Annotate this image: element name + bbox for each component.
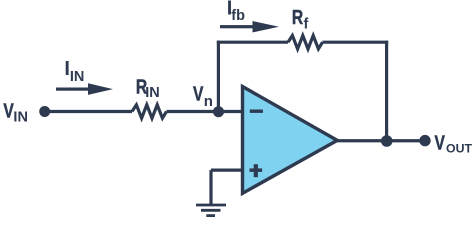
svg-text:IN: IN <box>13 109 28 125</box>
label IIN <box>64 58 84 85</box>
svg-text:n: n <box>204 93 213 110</box>
wire feedback top from corner to resistor Rf <box>217 41 288 44</box>
node output junction dot <box>381 135 393 147</box>
op-amp U1 triangle <box>243 87 338 194</box>
wire input from VIN dot to resistor RIN <box>45 110 132 113</box>
wire ground vertical stub <box>209 170 212 204</box>
svg-text:IN: IN <box>145 85 160 101</box>
svg-text:V: V <box>3 100 13 122</box>
wire from resistor RIN to op-amp inverting input <box>167 110 243 113</box>
ground symbol <box>196 205 226 216</box>
resistor RIN <box>132 105 167 118</box>
label VOUT <box>435 132 473 156</box>
op-amp inverting input minus sign <box>250 110 263 113</box>
svg-text:fb: fb <box>231 8 245 24</box>
node VIN terminal dot <box>39 106 50 117</box>
svg-text:V: V <box>193 83 203 105</box>
node VOUT terminal dot <box>419 135 430 146</box>
label Ifb <box>227 0 245 24</box>
svg-text:R: R <box>292 6 303 28</box>
current arrow Ifb <box>220 21 279 32</box>
label RIN <box>136 75 160 100</box>
node Vn junction dot <box>213 106 224 117</box>
op-amp non-inverting input plus sign <box>250 164 263 177</box>
svg-text:V: V <box>435 132 445 154</box>
label Rf <box>292 6 309 33</box>
label Vn <box>193 83 213 110</box>
svg-text:OUT: OUT <box>446 142 472 156</box>
wire output from op-amp to VOUT terminal <box>337 139 424 142</box>
wire feedback right vertical down to output <box>385 41 388 141</box>
label VIN <box>3 100 28 126</box>
current arrow IIN <box>56 83 113 95</box>
resistor Rf <box>288 36 323 49</box>
wire feedback top from resistor Rf to right corner <box>323 41 389 44</box>
wire plus input from ground stub to op-amp <box>211 169 243 172</box>
wire feedback left vertical from node Vn up <box>217 41 220 112</box>
svg-text:f: f <box>304 17 309 33</box>
svg-text:IN: IN <box>70 69 85 85</box>
